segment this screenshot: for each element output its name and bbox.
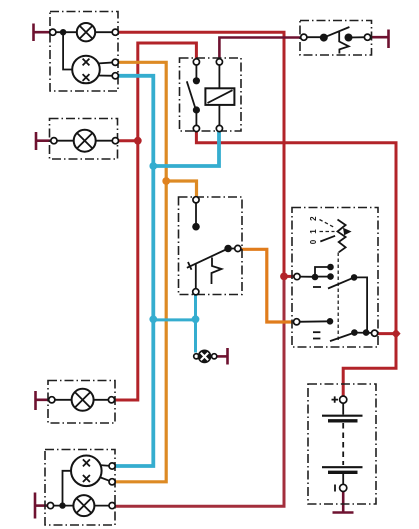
svg-text:0: 0 <box>309 239 318 244</box>
svg-text:2: 2 <box>309 216 318 221</box>
svg-text:1: 1 <box>309 229 318 234</box>
